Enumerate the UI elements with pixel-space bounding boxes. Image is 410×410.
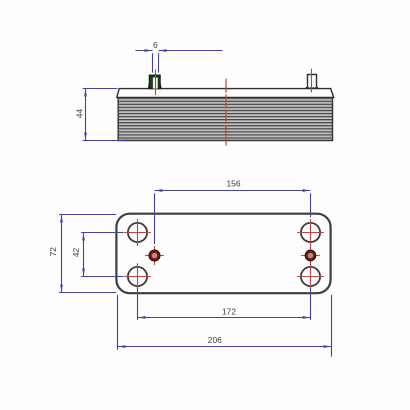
dimension 44 (stack height) bbox=[74, 89, 125, 141]
shared vertical centerline right column bbox=[310, 219, 312, 290]
svg-text:172: 172 bbox=[222, 306, 236, 316]
centerline of right connector bbox=[311, 69, 313, 93]
top cover plate (lid) bbox=[117, 89, 334, 98]
port left (small red) bbox=[145, 246, 164, 265]
dimension 42 (hole spacing vertical) bbox=[71, 233, 123, 277]
dimension 172 (hole spacing horizontal) bbox=[138, 288, 311, 320]
svg-text:44: 44 bbox=[74, 109, 84, 119]
hole bottom-right bbox=[297, 267, 324, 286]
svg-text:6: 6 bbox=[153, 40, 158, 50]
svg-text:42: 42 bbox=[71, 248, 81, 258]
plate outline rounded rectangle bbox=[116, 214, 330, 294]
port right (small red) bbox=[301, 250, 320, 261]
hole bottom-left bbox=[124, 263, 151, 290]
svg-text:156: 156 bbox=[227, 179, 241, 189]
dimension 156 (port spacing) bbox=[155, 179, 311, 245]
hole top-right bbox=[297, 223, 324, 242]
dimension 206 (overall length) bbox=[118, 295, 332, 357]
connector stub right bbox=[306, 75, 318, 89]
connector stub left (green) bbox=[148, 75, 162, 89]
main vertical centerline of side view bbox=[225, 79, 227, 146]
dimension 6 (connector bore) bbox=[135, 40, 222, 73]
dimension 72 (plate width) bbox=[48, 215, 116, 293]
centerline of left connector bbox=[155, 69, 157, 95]
svg-text:72: 72 bbox=[48, 247, 58, 257]
svg-text:206: 206 bbox=[208, 335, 222, 345]
plate stack body bbox=[118, 97, 332, 140]
hole top-left bbox=[124, 219, 151, 246]
